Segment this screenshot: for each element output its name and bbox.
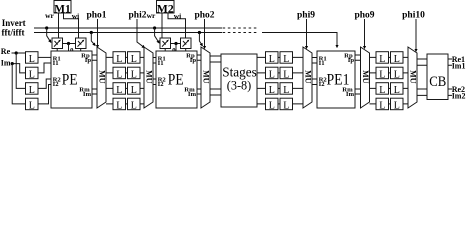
svg-text:Re: Re [1,47,11,56]
svg-text:I1: I1 [158,60,164,67]
svg-text:Im1: Im1 [452,61,466,70]
svg-text:PE: PE [168,71,184,88]
svg-text:I2: I2 [158,81,165,88]
svg-text:phi9: phi9 [297,10,315,20]
svg-text:I1: I1 [53,60,59,67]
svg-text:I1: I1 [319,60,325,67]
svg-text:Im: Im [188,91,197,98]
svg-text:phi2: phi2 [129,10,147,20]
svg-text:MU: MU [97,70,106,84]
svg-text:Im: Im [83,91,92,98]
svg-text:Im2: Im2 [452,91,466,100]
svg-text:I2: I2 [53,81,60,88]
svg-text:pho9: pho9 [354,10,374,20]
svg-text:(3-8): (3-8) [227,77,252,92]
svg-text:MU: MU [361,70,370,84]
svg-text:Ip: Ip [190,57,197,64]
svg-text:Im: Im [1,59,11,68]
svg-text:Invert: Invert [2,18,26,28]
svg-text:MU: MU [201,70,210,84]
svg-text:wr: wr [45,11,54,20]
svg-text:Ip: Ip [348,57,355,64]
svg-text:wr: wr [147,11,156,20]
svg-text:fft/ifft: fft/ifft [2,28,25,38]
svg-text:pho2: pho2 [194,10,214,20]
svg-text:Ip: Ip [85,57,92,64]
svg-text:I2: I2 [319,81,326,88]
svg-text:pho1: pho1 [86,10,106,20]
svg-text:PE: PE [62,71,78,88]
svg-text:M1: M1 [54,1,70,15]
svg-text:M2: M2 [157,1,174,15]
svg-text:CB: CB [429,74,446,90]
svg-text:Im: Im [346,91,355,98]
svg-text:MU: MU [144,70,153,84]
svg-text:phi10: phi10 [402,10,425,20]
svg-text:MU: MU [408,70,417,84]
svg-text:MU: MU [303,70,312,84]
